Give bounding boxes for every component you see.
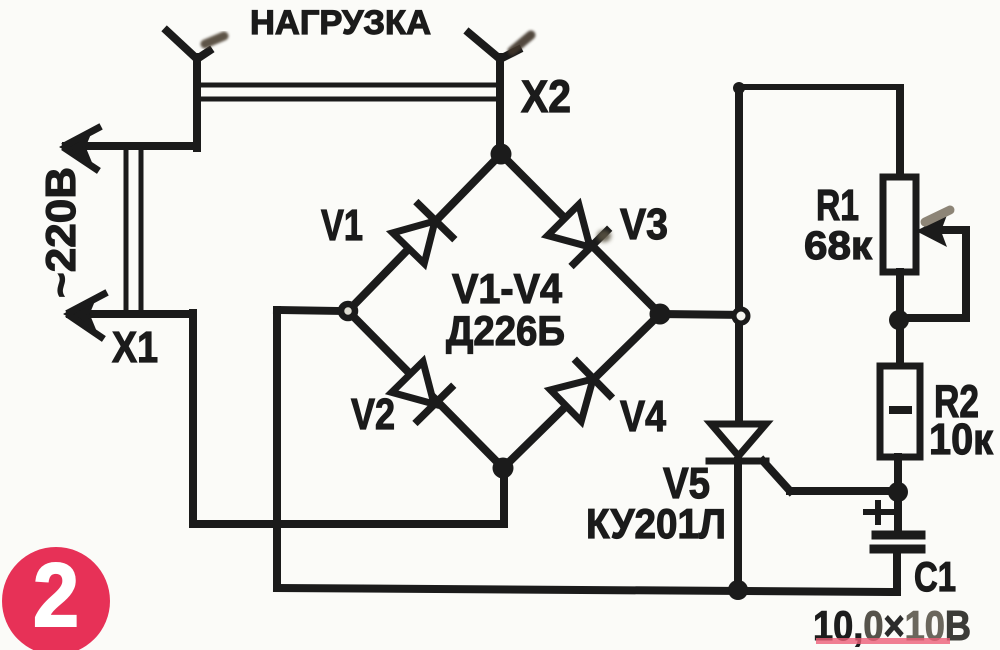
wire: bottom rail bbox=[277, 588, 897, 592]
node: thyristor top junction (open) bbox=[734, 309, 748, 323]
badge: red circle 2 bbox=[2, 546, 110, 650]
svg-text:НАГРУЗКА: НАГРУЗКА bbox=[250, 4, 431, 42]
svg-text:X2: X2 bbox=[521, 71, 571, 122]
resistor R1 bbox=[883, 177, 916, 272]
wire: bridge arm top-right bbox=[501, 154, 660, 314]
thyristor V5 bbox=[709, 316, 766, 590]
wire: bridge arm bottom-right bbox=[503, 314, 660, 468]
svg-text:~220В: ~220В bbox=[37, 167, 84, 298]
wire: top AC lead bbox=[66, 142, 197, 150]
node: wiper loop junction bbox=[889, 310, 909, 330]
wire: load double line (lower) bbox=[200, 97, 498, 102]
wire: X1 to bridge bottom horizontal bbox=[193, 520, 504, 528]
arrow: mains top bbox=[62, 128, 98, 169]
connector pin (top-left plug) bbox=[167, 31, 224, 148]
wire: right node to thyristor junction bbox=[660, 314, 745, 315]
svg-text:V2: V2 bbox=[351, 390, 395, 439]
svg-text:КУ201Л: КУ201Л bbox=[586, 500, 726, 547]
wire: bridge bottom node lead bbox=[500, 468, 508, 524]
svg-text:68к: 68к bbox=[804, 224, 873, 268]
stain near V3 bbox=[597, 230, 611, 242]
wire: bridge arm top-left bbox=[348, 154, 501, 311]
wire: R1 bottom lead bbox=[896, 272, 904, 366]
diode V1 bbox=[392, 204, 453, 264]
diode V2 bbox=[391, 360, 451, 420]
diode V3 bbox=[547, 203, 607, 263]
svg-text:V1-V4: V1-V4 bbox=[452, 265, 563, 312]
wire: R2 bottom lead bbox=[894, 457, 902, 533]
node: bridge left (open) bbox=[341, 304, 355, 318]
node: bottom rail junction bbox=[728, 580, 748, 600]
node: bridge bottom bbox=[493, 458, 514, 479]
wire: left node stub bbox=[277, 310, 341, 311]
svg-text:V3: V3 bbox=[620, 200, 668, 249]
connector pin X2 (top-right plug) bbox=[469, 33, 531, 154]
C1 plus sign bbox=[866, 503, 891, 522]
R2 power mark bbox=[889, 406, 912, 414]
wire: wiper loop top bbox=[943, 226, 966, 234]
R1 wiper arrow bbox=[916, 210, 950, 247]
wire: X1 drop vertical bbox=[189, 313, 197, 524]
arrow: mains bottom bbox=[66, 294, 104, 337]
wire: top rail bbox=[739, 84, 900, 90]
capacitor C1 bbox=[874, 535, 921, 592]
wire: wiper loop bottom bbox=[899, 314, 966, 322]
wire: R1 top lead bbox=[896, 88, 904, 177]
svg-text:10к: 10к bbox=[929, 415, 994, 464]
svg-text:2: 2 bbox=[33, 546, 79, 646]
wire: wiper loop right vertical bbox=[962, 230, 970, 318]
wire: left node drop vertical bbox=[273, 310, 281, 588]
wire: bottom AC lead X1 bbox=[70, 310, 193, 318]
svg-text:V4: V4 bbox=[620, 392, 666, 441]
svg-text:X1: X1 bbox=[112, 323, 158, 372]
diode V4 bbox=[549, 362, 609, 423]
svg-text:C1: C1 bbox=[914, 553, 956, 600]
resistor R2 bbox=[880, 366, 920, 457]
svg-text:V1: V1 bbox=[321, 201, 363, 250]
wire: mains cable pair (left vertical thin pair) bbox=[126, 150, 141, 311]
node: gate/R2/C1 junction bbox=[888, 482, 908, 502]
node: top rail corner blob bbox=[733, 82, 745, 94]
node: bridge right bbox=[650, 304, 671, 325]
wire: load double line (upper) bbox=[200, 83, 498, 88]
wire: vertical riser to top rail bbox=[735, 88, 743, 316]
wire: V5 gate horizontal bbox=[790, 487, 898, 495]
svg-text:Д226Б: Д226Б bbox=[446, 307, 565, 354]
svg-text:R1: R1 bbox=[816, 181, 859, 230]
C1 value pink underline bbox=[816, 638, 950, 644]
wire: V5 gate diagonal bbox=[763, 461, 790, 491]
wire: bridge arm bottom-left bbox=[348, 311, 503, 468]
node: bridge top bbox=[491, 144, 512, 165]
